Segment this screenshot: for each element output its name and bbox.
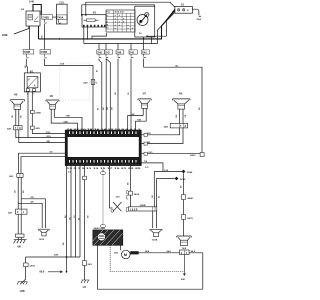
wire fuse to ignition (top run B) [82, 5, 155, 14]
cable group brackets [126, 191, 128, 212]
connector c1 [98, 44, 100, 50]
svg-text:7/45B: 7/45B [40, 51, 47, 54]
ghost box dashed [60, 63, 90, 100]
wire linking top pair [53, 16, 57, 18]
speaker 16/8 [177, 236, 191, 240]
ignition switch box [135, 6, 155, 37]
wire to 16/1 X symbol [110, 165, 113, 208]
wire 7/45B upper down to 7/45B lower [43, 24, 45, 50]
svg-text:24/18: 24/18 [134, 193, 140, 196]
amp pins [26, 89, 29, 92]
wire 1/1 right to 2/04 hook [192, 9, 201, 16]
svg-text:16/1B: 16/1B [152, 239, 158, 241]
wires down to 3/45B connector [154, 172, 156, 207]
wire 7/43B to amp 8/1 [26, 59, 27, 73]
svg-text:7/45A: 7/45A [57, 17, 64, 20]
svg-text:7/48: 7/48 [97, 51, 102, 54]
svg-text:89.8: 89.8 [40, 271, 45, 274]
connector below 16/8 [180, 250, 190, 255]
radio bottom dotted antenna feed [102, 170, 104, 172]
wire with inline connector to ground 1/4 [84, 165, 86, 261]
svg-text:1/40: 1/40 [29, 0, 35, 4]
wire ignition to connector c5 [143, 37, 145, 50]
svg-text:7/47: 7/47 [105, 51, 110, 54]
wire radio right to 24/16 [141, 153, 200, 155]
svg-text:7/43B: 7/43B [24, 51, 31, 54]
amp right pin wire with inline connectors [32, 91, 66, 133]
wire relay to 2/9B flag [14, 26, 29, 34]
wire line1 to diamond 22/48 [154, 171, 183, 173]
wires ignition bottom to bus [150, 37, 152, 44]
ignition switch position table [106, 10, 135, 32]
connector 7/45B (top pair left) [42, 15, 53, 20]
wire 4/7 right pin into radio top [136, 121, 147, 130]
svg-text:13 5 7 9 11 13 15 17 19 21 23: 13 5 7 9 11 13 15 17 19 21 23 25 [67, 168, 143, 170]
svg-text:A: A [34, 85, 36, 88]
svg-text:Pos: Pos [107, 12, 110, 14]
bus B thick (y38.9) to 1/1 fan [39, 10, 175, 39]
relay contact [34, 17, 39, 22]
wires c1-c4 down to radio top [99, 59, 102, 131]
column 22/48 down to speaker 16/8 [183, 173, 185, 236]
svg-text:7/45B: 7/45B [42, 16, 49, 19]
svg-text:0.5: 0.5 [68, 172, 71, 174]
wires 24/3B branch to speaker 16/19 [21, 199, 46, 228]
svg-text:24/46: 24/46 [35, 112, 41, 115]
wire relay pin to thick bus [38, 26, 40, 39]
fuse box bottom pins [83, 25, 105, 27]
speaker 16/19 (small) [39, 229, 50, 232]
svg-text:7/46: 7/46 [142, 51, 147, 54]
wire radio pin to 3/45B box left [130, 165, 132, 207]
wire code labels above radio [97, 107, 113, 110]
svg-text:1/1: 1/1 [181, 2, 185, 6]
svg-text:22/49: 22/49 [180, 178, 186, 181]
svg-text:1 8 5 R: 1 8 5 R [130, 209, 138, 211]
ground 6/8 [16, 234, 25, 237]
svg-text:24/46 16/4B: 24/46 16/4B [94, 227, 106, 230]
svg-text:2/9B: 2/9B [2, 33, 8, 37]
ground bus line bottom-left [26, 256, 80, 258]
radio top pin ticks [69, 131, 137, 162]
svg-text:0.75: 0.75 [145, 167, 149, 169]
scattered wire code labels [25, 35, 201, 245]
wire to ground 1/3B [22, 267, 26, 284]
svg-text:24/48: 24/48 [187, 197, 193, 200]
antenna pins down [98, 245, 203, 289]
connector c4 [130, 44, 132, 50]
speaker 4/6 wires to radio top [51, 109, 77, 130]
speaker 16/1B pins [153, 211, 157, 228]
wire fuse to 1/1 (top run A) [86, 2, 175, 14]
wire down to arrow 8/91 [183, 255, 185, 276]
svg-text:7/48: 7/48 [116, 51, 121, 54]
relay coil [28, 15, 33, 20]
wires to ground 6/8 [18, 214, 21, 234]
svg-text:7/45: 7/45 [129, 51, 134, 54]
svg-text:24/16: 24/16 [190, 154, 196, 157]
connector 7/45B lower [40, 50, 51, 55]
bus short (y36.2) to 1/1 fan [147, 9, 175, 36]
connector 24/13 [25, 257, 27, 263]
svg-text:24 22 20 18 16 14 12 10 8 6 4: 24 22 20 18 16 14 12 10 8 6 4 2 1 [67, 128, 143, 131]
amp left pin wire to radio line [27, 91, 29, 137]
connector wires left/right [140, 252, 180, 254]
relay K1 box [26, 11, 40, 26]
svg-text:24/13: 24/13 [30, 265, 36, 268]
fuse pins down to buses [84, 27, 88, 44]
radio bottom-right wires to diamonds [135, 163, 163, 172]
svg-text:1/3B: 1/3B [20, 290, 25, 293]
wire radio left to 24/3B connector [19, 153, 67, 173]
wire c5 to right column [144, 59, 202, 153]
speaker 4/9 pins [180, 109, 183, 123]
radio pin numbers top row [67, 128, 143, 170]
connector c5 [142, 50, 150, 54]
connector c2 [105, 44, 107, 50]
inline connector on 11/4 wire [91, 80, 95, 85]
wire line2 to diamond 22/49 [156, 178, 174, 180]
connector 24/1B and ground 1/4 [83, 261, 87, 266]
speaker 4/8 wires to radio [16, 130, 66, 138]
speaker 4/8 pins [16, 109, 19, 125]
svg-text:24/78: 24/78 [187, 217, 193, 220]
svg-text:0: 0 [107, 15, 108, 17]
ignition switch symbol circle [137, 15, 148, 26]
radio unit 3/1 [66, 130, 142, 165]
connector 7/43B (left pair) [23, 50, 34, 55]
bus C (y43.5) to 1/1 fan [84, 12, 175, 43]
wire thick top from relay to connector 7/45B upper [33, 5, 41, 15]
svg-text:SB: SB [47, 141, 50, 143]
connector 7/45A (top pair right) [56, 15, 67, 20]
wire 4/7 left pin into radio top [128, 116, 144, 131]
fuse box top pins [81, 14, 87, 16]
wires 24/3B down [18, 177, 21, 209]
radio bottom-left wires [66, 165, 68, 272]
svg-text:5/1: 5/1 [93, 11, 97, 15]
speaker 4/7 pins [143, 108, 146, 121]
connector c3 [117, 44, 119, 50]
fuse box 5/1 [82, 15, 106, 27]
wire relay bottom pin down to 7/43B [28, 26, 31, 50]
svg-text:16/19: 16/19 [39, 239, 45, 241]
speaker 4/9 wires to radio right [141, 128, 180, 135]
fuse element [87, 19, 96, 22]
wire 7/45B to 11/4 run into radio [44, 59, 93, 131]
svg-text:22/48: 22/48 [187, 171, 193, 174]
speaker 16/1B [150, 229, 162, 233]
bus tap to table [92, 33, 107, 39]
